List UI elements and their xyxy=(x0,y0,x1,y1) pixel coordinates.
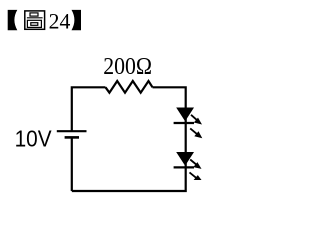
wire: top-left segment from left corner to resistor xyxy=(72,87,106,131)
battery cell (10V): long positive plate xyxy=(57,130,87,132)
LED D2: emission arrow 1 xyxy=(190,160,201,169)
LED D2: cathode bar xyxy=(174,166,194,168)
LED D1: cathode bar xyxy=(174,122,194,124)
svg-text:200Ω: 200Ω xyxy=(103,53,152,80)
resistor R (200Ω) zigzag xyxy=(106,81,153,93)
svg-text:10V: 10V xyxy=(15,126,52,152)
wire: top-right segment from resistor to right corner and down xyxy=(72,87,186,191)
LED D1: anode triangle xyxy=(177,108,193,120)
figure title opening bracket 【 xyxy=(8,10,18,30)
LED D2: anode triangle xyxy=(177,153,193,165)
LED D2: emission arrow 2 xyxy=(190,172,202,180)
battery cell (10V): short negative plate xyxy=(65,136,79,139)
wire: bottom-left and left segment up to battery bottom plate xyxy=(71,137,73,191)
figure title closing bracket 】 xyxy=(72,10,82,30)
figure title glyph 圖 xyxy=(25,11,45,29)
LED D1: emission arrow 2 xyxy=(190,128,202,138)
svg-text:24: 24 xyxy=(49,9,71,34)
LED D1: emission arrow 1 xyxy=(191,115,202,125)
